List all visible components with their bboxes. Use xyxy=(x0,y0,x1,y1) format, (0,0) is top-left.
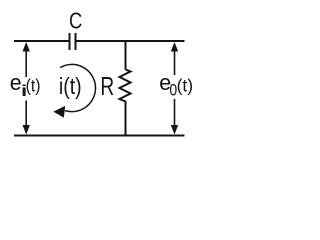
svg-text:e: e xyxy=(10,69,22,95)
voltage arrow ei shaft lower segment xyxy=(25,101,27,133)
voltage arrow eo bottom head xyxy=(171,125,178,135)
capacitor C1 right plate xyxy=(75,33,77,50)
voltage arrow ei top head xyxy=(23,42,30,52)
resistor R1 zigzag xyxy=(120,70,131,104)
voltage arrow eo shaft upper segment xyxy=(174,44,176,75)
svg-text:C: C xyxy=(69,9,82,34)
resistor R1 bottom lead xyxy=(125,103,127,136)
capacitor C1 left plate xyxy=(69,33,71,50)
bottom wire xyxy=(14,135,185,137)
svg-text:(t): (t) xyxy=(177,75,194,95)
resistor R1 top lead xyxy=(125,41,127,70)
top wire (left of capacitor) xyxy=(14,40,69,42)
voltage arrow ei shaft upper segment xyxy=(25,44,27,77)
voltage arrow eo shaft lower segment xyxy=(174,99,176,132)
top wire (right of capacitor) xyxy=(76,40,184,42)
voltage arrow eo top head xyxy=(171,42,178,52)
voltage arrow ei bottom head xyxy=(23,125,30,135)
current loop arc i(t) xyxy=(60,64,95,111)
svg-text:(t): (t) xyxy=(26,76,41,96)
svg-text:i(t): i(t) xyxy=(59,74,82,100)
current loop arrowhead xyxy=(53,106,65,118)
svg-text:R: R xyxy=(100,72,114,100)
